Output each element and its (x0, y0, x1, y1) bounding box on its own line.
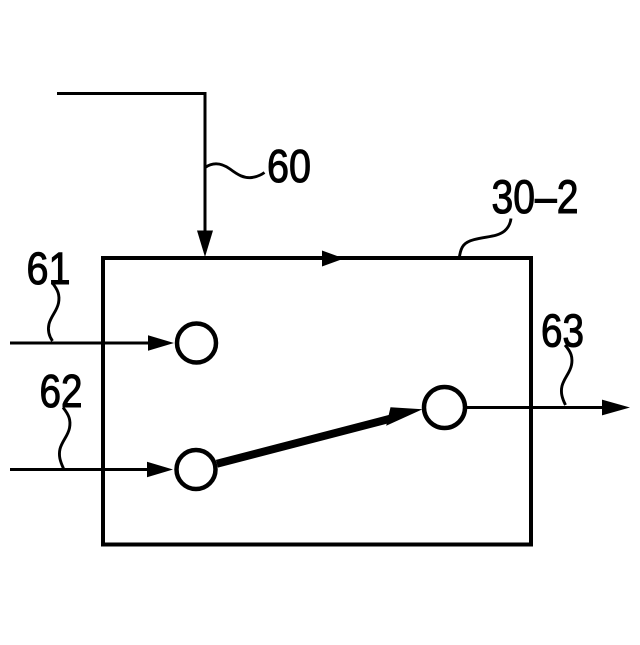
arrowhead: switch blade tip (386, 407, 422, 426)
wire: input 62 (10, 468, 149, 471)
wire: vertical segment of input 60 (204, 92, 207, 232)
arrowhead: input 62 (147, 462, 173, 478)
box 30-2 (selector block) (103, 258, 531, 545)
leader squiggle for label 63 (561, 345, 572, 405)
leader curve for label 30-2 (460, 219, 512, 257)
contact circle: input 61 terminal (177, 324, 216, 363)
leader squiggle for label 62 (59, 408, 70, 469)
wire: input 61 (10, 342, 150, 345)
arrowhead: input 60 into box (down) (197, 231, 213, 258)
wire: output 63 (465, 406, 605, 409)
contact circle: output terminal (424, 387, 465, 428)
arrowhead: input 61 (148, 335, 174, 351)
svg-text:61: 61 (27, 243, 71, 294)
arrowhead: right-pointing on top edge of box (322, 251, 344, 267)
switch blade (thick wiper arm) from contact 62 toward output contact (217, 419, 391, 464)
svg-text:62: 62 (40, 365, 83, 417)
leader squiggle for label 61 (48, 283, 59, 342)
wire: top horizontal segment of input 60 (57, 92, 205, 95)
svg-text:60: 60 (267, 140, 311, 192)
svg-text:30–2: 30–2 (492, 171, 579, 224)
arrowhead: output 63 (602, 400, 630, 416)
leader squiggle for label 60 (205, 164, 265, 178)
contact circle: input 62 terminal (177, 450, 216, 489)
svg-text:63: 63 (541, 305, 584, 357)
